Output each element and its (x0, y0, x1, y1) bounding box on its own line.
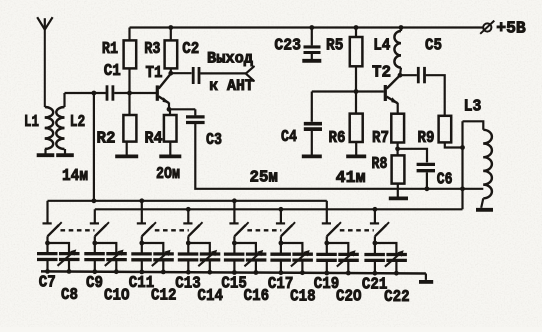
capacitor C15 (224, 254, 245, 260)
svg-text:к АНТ: к АНТ (209, 77, 254, 95)
label R1 (102, 40, 118, 59)
svg-text:14м: 14м (62, 167, 88, 186)
wire cell 8 cap feeds (375, 243, 397, 255)
ground of L2 (56, 149, 74, 155)
wire bottom common (41, 271, 426, 273)
wire cell 2 cap feeds (95, 243, 117, 254)
node T1 collector junction (168, 68, 173, 75)
svg-text:C5: C5 (425, 37, 442, 56)
label C12 (151, 287, 177, 306)
label C3 (206, 131, 222, 150)
capacitor C17 (270, 254, 291, 260)
switch S3 (137, 222, 156, 245)
capacitor C6 (417, 164, 435, 170)
ground of R8 (389, 184, 408, 199)
label C7 (39, 274, 56, 293)
svg-text:Выход: Выход (207, 49, 253, 67)
wire gang link S5-S6 (247, 229, 281, 231)
svg-text:25м: 25м (250, 169, 278, 188)
switch S8 (370, 222, 389, 245)
label band 25m (250, 169, 278, 188)
transistor T1 (157, 74, 171, 110)
svg-text:R9: R9 (418, 129, 435, 148)
label C9 (86, 274, 103, 293)
svg-text:L1: L1 (24, 113, 39, 132)
label C8 (61, 286, 78, 305)
svg-text:C2: C2 (182, 40, 199, 59)
label T2 (372, 64, 391, 83)
wire bus upper (48, 200, 327, 202)
label C18 (290, 287, 316, 306)
label R6 (329, 129, 346, 148)
terminal +5V (480, 21, 494, 34)
wire cell 6 cap feeds (281, 243, 303, 254)
ground of L1 (37, 149, 55, 155)
inductor L1 (45, 107, 53, 149)
capacitor C10 (trimmer) (105, 250, 127, 266)
resistor R3 (165, 25, 178, 68)
wire R9 bottom (445, 142, 465, 150)
wire L2 top to C1 (65, 92, 106, 94)
capacitor C3 (186, 117, 205, 123)
capacitor C20 (trimmer) (337, 250, 359, 266)
label k ANT (209, 77, 254, 95)
resistor R6 (350, 92, 363, 143)
capacitor C13 (178, 254, 199, 260)
wire cell 7 bottoms (324, 260, 350, 275)
label C23 (274, 37, 301, 56)
inductor L2 (56, 93, 64, 149)
svg-text:C1: C1 (104, 62, 121, 81)
wire bus lower (95, 208, 463, 210)
svg-text:C4: C4 (281, 128, 297, 147)
svg-text:L4: L4 (373, 37, 390, 56)
svg-text:2Oм: 2Oм (156, 165, 180, 184)
node T2 collector junction (398, 73, 403, 78)
resistor R7 (391, 114, 404, 143)
svg-text:C14: C14 (198, 287, 224, 306)
wire C1 to T1 base (114, 92, 156, 94)
node R5 base junction (354, 89, 359, 94)
label C1 (104, 62, 121, 81)
label C19 (314, 275, 340, 294)
capacitor C7 (37, 254, 58, 260)
label C14 (198, 287, 224, 306)
label C4 (281, 128, 297, 147)
label band 20m (156, 165, 180, 184)
svg-text:R8: R8 (372, 155, 388, 174)
resistor R1 (124, 28, 137, 69)
label band 14m (62, 167, 88, 186)
label C10 (104, 286, 130, 305)
wire gang link S3-S4 (155, 229, 189, 231)
svg-text:C3: C3 (206, 131, 222, 150)
label C21 (362, 275, 388, 294)
svg-text:R4: R4 (145, 130, 163, 149)
ground of capacitor bank (419, 274, 433, 282)
label band 41m (336, 169, 366, 188)
svg-text:L2: L2 (70, 113, 86, 132)
wire drop to switch cell 6 (280, 209, 282, 223)
capacitor C11 (131, 254, 152, 260)
wire L3 left branch (460, 121, 465, 209)
resistor R5 (350, 25, 363, 66)
wire cell 5 cap feeds (234, 243, 256, 254)
capacitor C21 (364, 255, 385, 261)
label C5 (425, 37, 442, 56)
svg-text:C8: C8 (61, 286, 78, 305)
svg-text:C22: C22 (384, 288, 410, 307)
label R8 (372, 155, 388, 174)
label R7 (372, 129, 389, 148)
wire cell 1 bottoms (45, 260, 71, 274)
label R5 (326, 37, 343, 56)
wire cell 8 bottoms (373, 260, 399, 275)
node bus1 junctions (92, 198, 237, 203)
ground of C23 (302, 54, 321, 61)
wire drop to switch cell 1 (46, 201, 48, 224)
wire drop to switch cell 3 (141, 201, 143, 224)
wire R7 to C6 (398, 149, 427, 163)
inductor L3 (463, 121, 492, 198)
node T1 emitter junction (167, 107, 172, 112)
wire drop to switch cell 7 (326, 201, 328, 224)
switch S6 (276, 222, 295, 245)
switch S7 (322, 222, 341, 245)
svg-text:R2: R2 (97, 130, 116, 149)
switch S1 (43, 222, 62, 245)
wire cell 2 bottoms (92, 260, 118, 275)
svg-text:T1: T1 (146, 64, 163, 83)
label C16 (244, 287, 270, 306)
svg-text:C16: C16 (244, 287, 270, 306)
ground of C4 (302, 131, 322, 157)
switch S2 (90, 222, 109, 245)
svg-text:C12: C12 (151, 287, 177, 306)
svg-text:C9: C9 (86, 274, 103, 293)
label C2 (182, 40, 199, 59)
wire collector to C2 (171, 72, 192, 74)
svg-text:R6: R6 (329, 129, 346, 148)
wire 14m band tap (93, 93, 95, 201)
node R1 base junction (127, 68, 132, 95)
wire drop to switch cell 5 (233, 201, 235, 224)
capacitor C16 (trimmer) (244, 250, 266, 266)
wire drop to switch cell 4 (187, 209, 189, 223)
capacitor C9 (84, 254, 105, 260)
wire drop to switch cell 2 (94, 209, 96, 223)
node 14m tap junction (92, 91, 97, 96)
label T1 (146, 64, 163, 83)
svg-text:R1: R1 (102, 40, 118, 59)
label +5V (496, 20, 526, 39)
wire cell 5 bottoms (232, 260, 258, 275)
capacitor C14 (trimmer) (198, 250, 220, 266)
svg-text:T2: T2 (372, 64, 391, 83)
wire emitter to C3 (169, 109, 195, 115)
antenna WA1 (37, 17, 52, 107)
label L3 (464, 97, 482, 116)
wire R5 to T2 base (312, 66, 384, 91)
inductor L4 (394, 25, 403, 75)
svg-text:L3: L3 (464, 97, 482, 116)
svg-text:C7: C7 (39, 274, 56, 293)
node bus2 junctions (186, 207, 377, 212)
capacitor C18 (trimmer) (291, 250, 313, 266)
transistor T2 (385, 75, 400, 113)
wire cell 7 cap feeds (327, 243, 349, 254)
ground of R4 (159, 142, 181, 157)
connector output to antenna (246, 67, 254, 81)
capacitor C1 (107, 85, 113, 100)
wire C6 bottom (425, 172, 430, 191)
svg-text:R7: R7 (372, 129, 389, 148)
svg-text:+5В: +5В (496, 20, 526, 39)
capacitor C23 (304, 25, 321, 52)
label C15 (221, 275, 247, 294)
ground of R2 (115, 142, 138, 157)
capacitor C4 (304, 92, 322, 130)
svg-text:C6: C6 (437, 171, 453, 190)
wire cell 4 bottoms (186, 260, 212, 275)
ground of R6 (346, 142, 366, 156)
label C20 (336, 288, 362, 307)
resistor R9 (439, 116, 452, 143)
wire cell 1 cap feeds (48, 243, 70, 254)
capacitor C19 (316, 254, 337, 260)
label R3 (144, 40, 160, 59)
label C22 (384, 288, 410, 307)
resistor R8 (392, 149, 405, 184)
label L4 (373, 37, 390, 56)
wire +5V top rail (130, 26, 483, 28)
capacitor C22 (trimmer) (385, 250, 407, 266)
wire C2 to output jack (200, 72, 246, 74)
label R4 (145, 130, 163, 149)
svg-text:C23: C23 (274, 37, 301, 56)
switch S4 (183, 222, 202, 245)
label C17 (268, 275, 294, 294)
capacitor C5 (418, 67, 424, 83)
resistor R4 (164, 109, 177, 141)
node R7 bottom junction (395, 143, 400, 152)
label C6 (437, 171, 453, 190)
wire C3 bottom to common line (195, 124, 483, 189)
wire C5 to R9 (426, 75, 445, 116)
label C13 (175, 274, 201, 293)
svg-text:R5: R5 (326, 37, 343, 56)
capacitor C2 (193, 67, 199, 84)
wire drop to switch cell 8 (374, 209, 376, 223)
label L2 (70, 113, 86, 132)
wire cell 4 cap feeds (188, 243, 210, 254)
wire cell 3 bottoms (139, 260, 165, 275)
label L1 (24, 113, 39, 132)
label R9 (418, 129, 435, 148)
resistor R2 (123, 93, 136, 142)
svg-text:C18: C18 (290, 287, 316, 306)
wire gang link S7-S8 (340, 229, 374, 231)
svg-text:C1O: C1O (104, 286, 130, 305)
svg-text:C2O: C2O (336, 288, 362, 307)
wire gang link S1-S2 (61, 229, 95, 231)
ground of L3 (476, 198, 493, 210)
label C11 (129, 274, 155, 293)
capacitor C12 (trimmer) (152, 250, 174, 266)
wire cell 6 bottoms (279, 260, 305, 275)
svg-text:41м: 41м (336, 169, 366, 188)
label Vyhod (207, 49, 253, 67)
switch S5 (229, 222, 248, 245)
wire collector to C5 (400, 74, 417, 76)
label R2 (97, 130, 116, 149)
svg-text:R3: R3 (144, 40, 160, 59)
capacitor C8 (trimmer) (58, 249, 80, 265)
wire cell 3 cap feeds (142, 243, 164, 254)
